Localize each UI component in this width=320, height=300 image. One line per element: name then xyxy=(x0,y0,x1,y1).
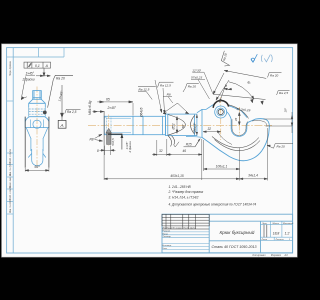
svg-text:34±1,4: 34±1,4 xyxy=(248,174,258,178)
svg-text:35: 35 xyxy=(234,118,238,122)
svg-text:1:2: 1:2 xyxy=(285,231,290,235)
dim 8 boss top xyxy=(224,88,232,90)
svg-text:Перв. примен.: Перв. примен. xyxy=(10,60,12,76)
fillet hex to body xyxy=(168,136,172,147)
bowl inner arc 2 xyxy=(215,140,261,151)
leaders from labels down xyxy=(155,72,213,113)
svg-text:57±0,23: 57±0,23 xyxy=(191,76,202,80)
side view shoulder xyxy=(29,99,46,107)
dim 403 long xyxy=(104,145,240,180)
side view centerline xyxy=(36,87,38,166)
hook tip outer xyxy=(248,119,269,128)
svg-text:Ø52: Ø52 xyxy=(171,123,175,130)
svg-text:Подп. и дата: Подп. и дата xyxy=(9,148,12,163)
tip inner gray line xyxy=(252,120,267,126)
datum leader line xyxy=(61,85,64,117)
Ra20 mid label xyxy=(183,84,199,92)
dim o52 xyxy=(176,117,178,134)
svg-text:№ докум.: № докум. xyxy=(173,226,183,229)
svg-text:Утв.: Утв. xyxy=(162,248,167,250)
chamfer leader xyxy=(21,75,50,100)
svg-text:Ra 20: Ra 20 xyxy=(277,145,286,149)
angle arc top right xyxy=(224,70,266,99)
svg-text:Ra 12,5: Ra 12,5 xyxy=(160,84,171,88)
Ra12.5 label left xyxy=(138,86,156,99)
dim 35 throat xyxy=(238,112,240,125)
svg-text:Н.контр.: Н.контр. xyxy=(162,245,172,247)
shank body xyxy=(104,116,165,134)
svg-text:60°: 60° xyxy=(181,123,185,128)
svg-text:Ra 20: Ra 20 xyxy=(270,74,279,78)
dim 66 xyxy=(25,168,49,172)
bare check below hex xyxy=(174,142,180,147)
svg-text:R8: R8 xyxy=(90,137,94,141)
datum square A xyxy=(58,120,66,128)
slanted dim 63.3 xyxy=(213,94,266,104)
svg-text:2 фаски: 2 фаски xyxy=(22,78,35,82)
svg-text:Листов: Листов xyxy=(275,239,285,241)
svg-text:Разраб.: Разраб. xyxy=(162,230,170,232)
svg-text:Формат: Формат xyxy=(271,253,282,257)
svg-text:0,1: 0,1 xyxy=(35,64,40,68)
side view thread section xyxy=(29,91,46,108)
neck slants xyxy=(26,128,48,139)
change rows grid (black) xyxy=(162,214,209,229)
hook throat U xyxy=(231,119,248,136)
boss vertical centerline xyxy=(220,97,222,140)
Ra20 at tip xyxy=(267,144,293,149)
slot right ext with arrow xyxy=(121,134,123,149)
svg-text:1×45°: 1×45° xyxy=(26,71,35,75)
svg-text:Ra 2,5: Ra 2,5 xyxy=(279,91,288,95)
Ra20 box top right xyxy=(268,73,282,78)
left margin box dividers xyxy=(7,57,14,214)
svg-text:2. *Размер для справок: 2. *Размер для справок xyxy=(168,190,204,194)
hex face arcs xyxy=(168,115,195,147)
svg-text:Ra 20: Ra 20 xyxy=(188,84,197,88)
frame border xyxy=(7,48,293,253)
svg-text:Масса: Масса xyxy=(273,223,280,225)
side view hidden band xyxy=(29,107,46,116)
angle peak marker xyxy=(163,103,189,114)
dim 32 below xyxy=(152,139,172,156)
roughness Ra2.5 xyxy=(65,109,81,113)
svg-text:32: 32 xyxy=(208,127,212,131)
svg-text:Ø64c6: Ø64c6 xyxy=(140,107,144,118)
svg-text:403±1,15: 403±1,15 xyxy=(170,174,183,178)
slot centerline xyxy=(108,115,110,147)
svg-text:Ø64,5*: Ø64,5* xyxy=(193,122,197,134)
side view inner slot lines xyxy=(30,138,32,151)
svg-text:Ra 12,5: Ra 12,5 xyxy=(139,87,150,91)
svg-text:R25: R25 xyxy=(186,143,192,147)
svg-text:Масштаб: Масштаб xyxy=(283,223,294,225)
top-left reference box xyxy=(13,48,64,57)
svg-text:4. Допускается центровые отвер: 4. Допускается центровые отверстия по ГО… xyxy=(169,203,257,207)
dim 46 below xyxy=(167,139,202,180)
bowl vertical centerline xyxy=(239,107,241,136)
dia64.5 dim arrows xyxy=(196,114,198,135)
throat left connect xyxy=(226,111,231,119)
Ra12.5 label right xyxy=(158,82,174,87)
side view collar xyxy=(25,117,49,128)
tolerance leader xyxy=(43,68,45,76)
signature rows (blue) xyxy=(162,232,209,250)
slot entry chamfers xyxy=(28,154,46,158)
svg-text:М64×6-8g: М64×6-8g xyxy=(88,100,92,115)
slot hanging section xyxy=(106,128,112,144)
bowl inner arc 3 xyxy=(217,131,232,145)
svg-text:106±1,1: 106±1,1 xyxy=(216,164,228,168)
svg-text:Сталь 40 ГОСТ 1050-2013: Сталь 40 ГОСТ 1050-2013 xyxy=(212,245,257,249)
svg-text:А: А xyxy=(60,123,64,128)
bracketed roughness mark xyxy=(261,54,272,62)
svg-text:65: 65 xyxy=(106,97,110,101)
leader arrows to lug top xyxy=(213,73,229,102)
tolerance frame xyxy=(24,62,51,68)
svg-text:2×45°: 2×45° xyxy=(107,106,117,110)
general roughness mark xyxy=(251,54,257,62)
svg-text:Лист: Лист xyxy=(165,227,172,229)
lug right gray edge xyxy=(229,105,249,119)
svg-text:Лист: Лист xyxy=(261,239,268,241)
svg-text:Дата: Дата xyxy=(189,227,197,229)
svg-text:Подп.: Подп. xyxy=(183,226,189,229)
svg-text:66*: 66* xyxy=(34,165,40,169)
rotated Ra20 upper xyxy=(220,51,233,68)
svg-text:Копировал: Копировал xyxy=(253,253,266,257)
hook upper lug blue contour xyxy=(197,105,247,138)
svg-text:A3: A3 xyxy=(283,253,288,257)
sheet xyxy=(2,44,298,257)
dim 32 boss xyxy=(203,131,221,133)
slot U bottom xyxy=(32,149,43,166)
boss circles xyxy=(215,106,227,118)
hex outline xyxy=(166,114,197,136)
Ra2.5 mid right xyxy=(277,91,290,95)
svg-text:32: 32 xyxy=(159,149,163,153)
collar circle xyxy=(26,120,48,166)
svg-text:18,8: 18,8 xyxy=(273,231,280,235)
hook bowl outer blue xyxy=(202,127,269,161)
svg-text:R8: R8 xyxy=(167,92,171,96)
shank end face xyxy=(103,111,105,145)
dim 8 slot xyxy=(100,146,116,156)
frame left column line xyxy=(12,48,14,253)
svg-text:2 фаски: 2 фаски xyxy=(128,141,132,154)
left margin rotated labels xyxy=(9,60,12,213)
main axis centerline xyxy=(88,124,272,126)
dim 106 xyxy=(204,140,240,181)
dim 65 xyxy=(97,101,133,116)
svg-text:12°30': 12°30' xyxy=(192,68,201,72)
body bottom edge to bowl xyxy=(186,136,202,137)
svg-text:46: 46 xyxy=(183,149,187,153)
svg-text:Инв. № подл.: Инв. № подл. xyxy=(9,198,12,213)
svg-text:θ₁: θ₁ xyxy=(248,81,251,85)
bowl inner arc 1 xyxy=(212,137,259,148)
dim 34 tip xyxy=(240,128,268,181)
svg-text:Лит.: Лит. xyxy=(261,223,268,225)
slot hidden lines xyxy=(106,118,111,134)
svg-text:5±0,5: 5±0,5 xyxy=(111,138,115,146)
svg-text:Пров.: Пров. xyxy=(162,233,168,235)
roughness Ra20 left xyxy=(48,75,73,107)
svg-text:Подп. и дата: Подп. и дата xyxy=(9,185,12,200)
tip dims xyxy=(264,112,293,133)
title block outer xyxy=(162,214,293,253)
svg-text:Ra 2,5: Ra 2,5 xyxy=(67,110,77,114)
boss cap thick arc xyxy=(213,100,228,107)
svg-text:Ra 20: Ra 20 xyxy=(56,76,65,80)
svg-text:Крюк буксирный: Крюк буксирный xyxy=(220,229,255,235)
svg-text:Взам. инв. №: Взам. инв. № xyxy=(9,173,12,188)
throat gray inner xyxy=(232,119,248,135)
leader target blob xyxy=(43,111,47,115)
R8 leaders xyxy=(95,134,103,141)
title block right grid (lit/massa/masshtab) xyxy=(261,221,293,240)
svg-text:8: 8 xyxy=(97,149,99,153)
svg-text:Т.контр.: Т.контр. xyxy=(162,236,171,238)
svg-text:1. 241...285 НВ: 1. 241...285 НВ xyxy=(169,185,192,189)
side view body sides xyxy=(25,117,49,168)
title block tiny texts xyxy=(162,223,294,250)
slot thick edge xyxy=(108,133,123,135)
svg-text:3. Н14, h14, ± IT14/2: 3. Н14, h14, ± IT14/2 xyxy=(169,196,199,200)
